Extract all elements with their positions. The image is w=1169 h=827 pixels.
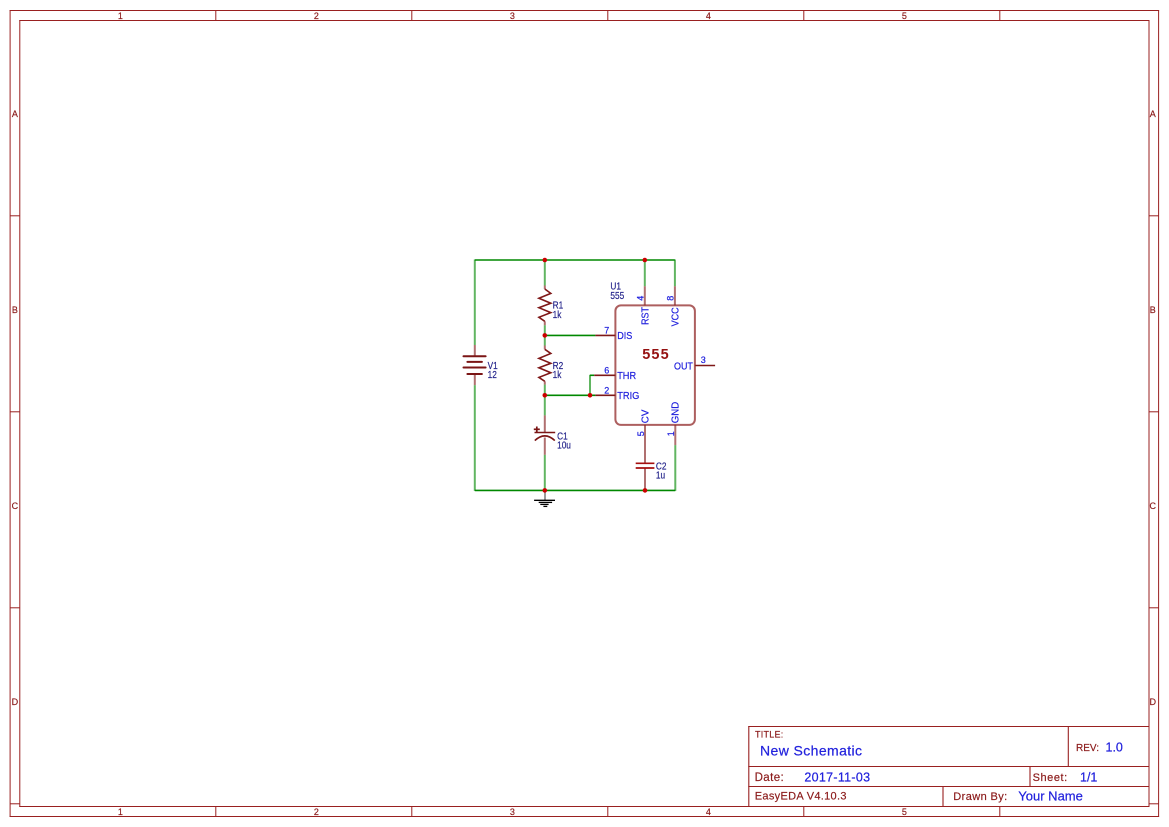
svg-text:GND: GND: [669, 401, 681, 423]
svg-text:2: 2: [604, 385, 609, 395]
svg-text:1u: 1u: [656, 470, 665, 481]
svg-text:1/1: 1/1: [1080, 771, 1097, 785]
svg-text:THR: THR: [617, 370, 636, 382]
svg-text:10u: 10u: [557, 440, 571, 451]
svg-text:3: 3: [510, 11, 515, 21]
svg-text:C: C: [12, 501, 19, 511]
svg-text:4: 4: [706, 11, 711, 21]
svg-text:RST: RST: [639, 307, 651, 325]
svg-text:5: 5: [902, 807, 907, 817]
svg-text:OUT: OUT: [674, 360, 693, 372]
svg-text:VCC: VCC: [670, 307, 682, 326]
svg-text:1k: 1k: [553, 369, 562, 380]
svg-text:3: 3: [701, 355, 706, 365]
svg-text:TITLE:: TITLE:: [755, 729, 784, 739]
svg-text:5: 5: [902, 11, 907, 21]
svg-text:Your Name: Your Name: [1018, 789, 1083, 804]
svg-text:4: 4: [636, 296, 646, 301]
svg-text:TRIG: TRIG: [617, 390, 639, 402]
svg-text:B: B: [12, 305, 18, 315]
svg-text:8: 8: [666, 296, 676, 301]
svg-text:12: 12: [488, 369, 497, 380]
svg-text:2017-11-03: 2017-11-03: [804, 771, 870, 785]
svg-text:6: 6: [604, 365, 609, 375]
svg-text:555: 555: [610, 290, 624, 301]
svg-text:1.0: 1.0: [1106, 740, 1123, 754]
svg-text:555: 555: [642, 347, 670, 363]
svg-text:1: 1: [118, 807, 123, 817]
svg-text:4: 4: [706, 807, 711, 817]
svg-text:D: D: [1150, 697, 1157, 707]
svg-text:1: 1: [666, 431, 676, 436]
svg-text:EasyEDA V4.10.3: EasyEDA V4.10.3: [755, 791, 847, 803]
svg-text:Drawn By:: Drawn By:: [953, 791, 1007, 803]
svg-text:A: A: [1150, 109, 1156, 119]
svg-text:A: A: [12, 109, 18, 119]
svg-text:2: 2: [314, 807, 319, 817]
svg-text:REV:: REV:: [1076, 743, 1099, 754]
svg-text:3: 3: [510, 807, 515, 817]
svg-text:B: B: [1150, 305, 1156, 315]
svg-text:7: 7: [604, 325, 609, 335]
svg-text:DIS: DIS: [617, 330, 632, 342]
svg-text:2: 2: [314, 11, 319, 21]
svg-text:D: D: [12, 697, 19, 707]
svg-text:New Schematic: New Schematic: [760, 742, 862, 758]
svg-text:Sheet:: Sheet:: [1033, 772, 1068, 784]
svg-text:1: 1: [118, 11, 123, 21]
svg-text:C: C: [1150, 501, 1157, 511]
svg-text:CV: CV: [640, 410, 652, 424]
svg-text:1k: 1k: [553, 309, 562, 320]
svg-text:Date:: Date:: [755, 772, 785, 784]
svg-text:5: 5: [636, 431, 646, 436]
